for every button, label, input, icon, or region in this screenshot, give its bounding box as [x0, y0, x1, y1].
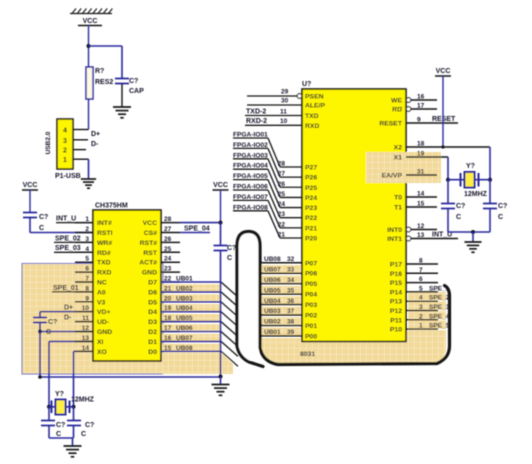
node junction gnd rail left — [38, 375, 42, 379]
svg-text:UD-: UD- — [97, 319, 109, 326]
svg-text:UB08: UB08 — [264, 256, 281, 263]
svg-text:21: 21 — [278, 231, 286, 238]
wire/label SPE_01 pin8 — [52, 291, 93, 293]
node 8031 pin 6 P15 — [406, 282, 438, 284]
svg-text:UB05: UB05 — [264, 287, 281, 294]
wire caps to ground right — [447, 209, 449, 233]
svg-text:XI: XI — [97, 339, 104, 346]
svg-text:UB04: UB04 — [176, 305, 193, 312]
svg-text:4: 4 — [63, 128, 67, 135]
svg-text:P15: P15 — [390, 280, 402, 287]
svg-text:D+: D+ — [64, 305, 73, 312]
wire UB06 bus CH375 side — [161, 331, 221, 333]
svg-text:P23: P23 — [305, 205, 317, 212]
node CH375 pin 26 RST# — [161, 241, 180, 243]
node CH375 pin 28 VCC — [161, 222, 180, 224]
svg-text:15: 15 — [417, 201, 425, 208]
svg-text:X2: X2 — [394, 145, 403, 152]
node highlight-band-8031 — [261, 331, 446, 364]
node CH375 pin 9 V3 — [75, 301, 93, 303]
svg-text:P06: P06 — [305, 271, 317, 278]
svg-text:UB06: UB06 — [176, 325, 193, 332]
node 8031 pin 29 PSEN — [247, 95, 297, 97]
node CH375 pin 3 WR# — [75, 241, 93, 243]
svg-text:ACT#: ACT# — [139, 260, 157, 267]
node CH375 pin 22 D7 — [161, 281, 180, 283]
crystal Y? 12MHZ bottom — [56, 400, 66, 415]
svg-text:C?: C? — [85, 422, 94, 429]
wire/label UB04 pin 36 to P03 — [262, 304, 302, 306]
svg-text:27: 27 — [164, 226, 172, 233]
svg-text:16: 16 — [417, 94, 425, 101]
wire cap to ground — [121, 84, 123, 108]
wire cap to pin2 RSTI — [29, 218, 31, 233]
svg-text:2: 2 — [63, 148, 67, 155]
wire UB02 bus CH375 side — [161, 291, 221, 293]
svg-text:EA/VP: EA/VP — [382, 173, 403, 180]
svg-text:SPE_2: SPE_2 — [429, 295, 450, 302]
wire crystal rail — [49, 406, 74, 408]
svg-text:9: 9 — [417, 117, 421, 124]
svg-text:D5: D5 — [148, 299, 157, 306]
svg-text:VCC: VCC — [83, 18, 98, 25]
svg-text:P01: P01 — [305, 323, 317, 330]
svg-text:3: 3 — [85, 236, 89, 243]
wire UB05 bus CH375 side — [161, 321, 221, 323]
node CH375 pin 8 A0 — [75, 291, 93, 293]
svg-text:8: 8 — [85, 285, 89, 292]
svg-text:P11: P11 — [390, 317, 402, 324]
wire UB01 bus CH375 side — [161, 281, 221, 283]
node 8031 pin 13 INT1 + INT_U label — [411, 238, 458, 240]
capacitor C? right-right — [489, 180, 491, 204]
svg-text:C?: C? — [498, 203, 507, 210]
node junction X2/VCC — [441, 145, 444, 148]
svg-text:26: 26 — [164, 236, 172, 243]
svg-text:R?: R? — [95, 68, 104, 75]
svg-text:39: 39 — [287, 329, 295, 336]
svg-text:6: 6 — [85, 266, 89, 273]
node junction crystal-right right — [488, 178, 492, 182]
resistor R? RES2 — [86, 67, 93, 99]
svg-text:VCC: VCC — [23, 182, 38, 189]
svg-text:UB02: UB02 — [176, 285, 193, 292]
capacitor C? right-left — [447, 180, 449, 204]
wire data-bus diagonals CH375 side — [221, 282, 238, 366]
svg-text:RD: RD — [392, 107, 402, 114]
wire/label INT_U to pin1 — [56, 222, 93, 224]
node CH375 pin 11 UD- — [75, 321, 93, 323]
svg-text:A0: A0 — [97, 289, 106, 296]
svg-text:26: 26 — [278, 181, 286, 188]
svg-text:3: 3 — [63, 138, 67, 145]
svg-text:12: 12 — [417, 223, 425, 230]
wire data-bus diagonals 8031 side — [246, 249, 262, 336]
svg-text:C: C — [81, 431, 86, 438]
wire/label SPE_02 pin3 — [54, 241, 93, 243]
wire VCC to R junction — [88, 26, 90, 68]
svg-text:C: C — [56, 431, 61, 438]
svg-text:D-: D- — [91, 141, 99, 148]
svg-text:D6: D6 — [148, 289, 157, 296]
svg-text:8: 8 — [419, 258, 423, 265]
node CH375 pin 4 RD# — [75, 251, 93, 253]
node CH375 pin 7 NC — [75, 281, 93, 283]
wire XO pin14 — [74, 350, 94, 352]
svg-text:P24: P24 — [305, 195, 317, 202]
svg-text:SPE_5: SPE_5 — [429, 323, 450, 330]
node junction crystal right — [72, 405, 76, 409]
svg-text:SPE_3: SPE_3 — [429, 304, 450, 311]
svg-text:RXD: RXD — [305, 123, 319, 130]
svg-text:7: 7 — [85, 276, 89, 283]
node CH375 pin 23 GND — [161, 271, 180, 273]
svg-text:T1: T1 — [394, 205, 402, 212]
capacitor C? bottom-left — [48, 407, 50, 421]
node CH375 pin 24 ACT# — [161, 261, 180, 263]
svg-text:3: 3 — [419, 304, 423, 311]
wire/label UB03 pin 37 to P02 — [262, 314, 302, 316]
svg-text:USB2.0: USB2.0 — [45, 131, 52, 154]
svg-text:VD+: VD+ — [97, 309, 110, 316]
wire R to USB pin4 — [88, 99, 90, 130]
node junction ground right — [471, 230, 475, 234]
svg-text:P03: P03 — [305, 302, 317, 309]
svg-text:D-: D- — [64, 315, 72, 322]
crystal Y? 12MHZ right — [465, 172, 475, 188]
node 8031 pin 31 EA/VP — [406, 174, 437, 176]
svg-text:P22: P22 — [305, 215, 317, 222]
node CH375 pin 25 RST — [161, 251, 180, 253]
svg-text:VCC: VCC — [213, 182, 228, 189]
svg-text:UB08: UB08 — [176, 345, 193, 352]
node selection-lasso-slot — [237, 232, 260, 362]
svg-text:C: C — [227, 255, 232, 262]
svg-text:1: 1 — [85, 216, 89, 223]
svg-text:TXD: TXD — [97, 260, 111, 267]
svg-text:D1: D1 — [148, 339, 157, 346]
svg-text:8031: 8031 — [300, 351, 315, 358]
node highlight-spe-stripes — [408, 292, 446, 342]
svg-text:25: 25 — [278, 191, 286, 198]
node highlight-x1-ea-box — [366, 152, 441, 183]
ground mid — [212, 384, 230, 386]
svg-text:D2: D2 — [148, 329, 157, 336]
svg-text:P00: P00 — [305, 333, 317, 340]
wire USB pin 1 to ground — [73, 158, 89, 160]
node 8031 pin 2 P11 — [406, 319, 438, 321]
svg-text:D3: D3 — [148, 319, 157, 326]
node CH375 pin 6 RXD — [75, 271, 93, 273]
svg-text:6: 6 — [419, 276, 423, 283]
svg-text:P14: P14 — [390, 289, 402, 296]
svg-text:7: 7 — [419, 267, 423, 274]
node 8031 pin 1 P10 — [406, 328, 438, 330]
svg-text:P26: P26 — [305, 175, 317, 182]
ground right — [464, 241, 481, 243]
node CH375 pin 5 TXD — [75, 261, 93, 263]
wire cap to GND pin12 — [39, 323, 41, 332]
wire USB pin 4 stub — [73, 129, 89, 131]
svg-text:Y?: Y? — [466, 163, 475, 170]
node 8031 pin 8 P17 — [406, 263, 438, 265]
node 8031 pin 19 X1 wire to crystal — [406, 156, 448, 158]
svg-text:UB06: UB06 — [264, 277, 281, 284]
capacitor C? bottom-right — [73, 407, 75, 421]
wire UB04 bus CH375 side — [161, 311, 221, 313]
node junction crystal left — [47, 405, 51, 409]
svg-text:UB07: UB07 — [176, 335, 193, 342]
svg-text:P02: P02 — [305, 313, 317, 320]
wire junction to cap CAP — [89, 45, 123, 47]
capacitor C? CAP — [115, 78, 129, 80]
svg-text:C?: C? — [456, 203, 465, 210]
svg-text:RXD: RXD — [97, 270, 111, 277]
svg-text:UB01: UB01 — [176, 276, 193, 283]
svg-text:P20: P20 — [305, 235, 317, 242]
node CH375 pin 20 D5 — [161, 301, 180, 303]
svg-text:35: 35 — [287, 287, 295, 294]
svg-text:14: 14 — [82, 345, 90, 352]
svg-text:INT1: INT1 — [387, 236, 402, 243]
node 8031 pin 16 WE — [411, 99, 437, 101]
svg-text:C?: C? — [39, 214, 48, 221]
svg-text:UB05: UB05 — [176, 315, 193, 322]
node junction VCC/R/C — [87, 44, 91, 48]
connector P1-USB body — [57, 119, 73, 169]
node CH375 pin 27 CS# — [161, 232, 180, 234]
svg-text:UB04: UB04 — [264, 298, 281, 305]
svg-text:36: 36 — [287, 298, 295, 305]
svg-text:17: 17 — [417, 103, 425, 110]
svg-text:22: 22 — [278, 221, 286, 228]
svg-text:INT_U: INT_U — [56, 216, 76, 223]
svg-text:D4: D4 — [148, 309, 157, 316]
svg-text:UB02: UB02 — [264, 319, 281, 326]
svg-text:C?: C? — [56, 422, 65, 429]
svg-text:CH375HM: CH375HM — [95, 203, 128, 210]
svg-text:RSTI: RSTI — [97, 230, 113, 237]
node 8031 pin 5 P14 — [406, 291, 438, 293]
svg-text:2: 2 — [85, 226, 89, 233]
node CH375 pin 2 RSTI — [75, 232, 93, 234]
node 8031 pin 30 ALE/P — [247, 104, 302, 106]
svg-text:4: 4 — [419, 295, 423, 302]
node 8031 pin 7 P16 — [406, 272, 438, 274]
svg-text:GND: GND — [142, 270, 157, 277]
wire/label UB05 pin 35 to P04 — [262, 293, 302, 295]
wire stem to ground — [220, 377, 222, 385]
svg-text:ALE/P: ALE/P — [305, 103, 325, 110]
ground below CAP — [113, 106, 131, 108]
node selection-lasso-outline — [237, 232, 450, 367]
node highlight-left-block — [22, 264, 163, 375]
node junction gnd rail — [219, 375, 223, 379]
wire stem ground right — [472, 232, 474, 242]
svg-text:P04: P04 — [305, 292, 317, 299]
wire caps to ground — [48, 426, 50, 439]
node CH375 pin 21 D6 — [161, 291, 180, 293]
svg-text:30: 30 — [281, 98, 289, 105]
svg-text:34: 34 — [287, 277, 295, 284]
wire UB03 bus CH375 side — [161, 301, 221, 303]
svg-text:24: 24 — [278, 201, 286, 208]
svg-text:C?: C? — [48, 319, 57, 326]
svg-text:V3: V3 — [97, 299, 106, 306]
wire/label SPE_04 pin27 — [180, 232, 210, 234]
svg-text:13: 13 — [82, 335, 90, 342]
svg-text:Y?: Y? — [55, 391, 64, 398]
svg-text:D+: D+ — [91, 131, 100, 138]
wire cap to ground rail — [220, 251, 222, 378]
svg-text:SPE_01: SPE_01 — [53, 285, 79, 292]
wire USB pin 3 stub — [73, 139, 88, 141]
svg-text:28: 28 — [164, 216, 172, 223]
svg-text:4: 4 — [85, 246, 89, 253]
op-amp U? CH375HM body — [93, 210, 161, 361]
node CH375 pin 18 D3 — [161, 321, 180, 323]
svg-text:INT0: INT0 — [387, 227, 402, 234]
svg-text:INT#: INT# — [97, 220, 112, 227]
capacitor C? mid — [214, 245, 228, 247]
node junction VCC/pin28 — [219, 221, 223, 225]
svg-text:RST#: RST# — [140, 240, 158, 247]
svg-text:19: 19 — [417, 151, 425, 158]
wire/label UB07 pin 33 to P06 — [262, 272, 302, 274]
wire UB07 bus CH375 side — [161, 340, 221, 342]
node CH375 pin 1 INT# — [75, 222, 93, 224]
node CH375 pin 17 D2 — [161, 331, 180, 333]
node 8031 pin 17 RD — [411, 108, 437, 110]
wire/label TXD-2 pin 11 — [245, 115, 302, 117]
svg-text:25: 25 — [164, 246, 172, 253]
svg-text:13: 13 — [417, 232, 425, 239]
svg-text:P13: P13 — [390, 299, 402, 306]
svg-text:P05: P05 — [305, 281, 317, 288]
svg-text:C: C — [498, 214, 503, 221]
svg-text:10: 10 — [280, 118, 288, 125]
svg-text:12MHZ: 12MHZ — [464, 191, 488, 198]
svg-text:5: 5 — [85, 256, 89, 263]
svg-text:VCC: VCC — [143, 220, 157, 227]
svg-text:CS#: CS# — [144, 230, 157, 237]
svg-text:37: 37 — [287, 308, 295, 315]
capacitor C? left — [23, 212, 37, 214]
ground bottom-left — [64, 445, 82, 447]
svg-text:18: 18 — [417, 141, 425, 148]
svg-text:RESET: RESET — [432, 116, 456, 123]
svg-text:11: 11 — [280, 108, 287, 115]
node 8031 pin 4 P13 — [406, 300, 438, 302]
node CH375 pin 14 XO — [75, 350, 93, 352]
wire/label UB01 pin 39 to P00 — [262, 335, 302, 337]
svg-text:SPE_4: SPE_4 — [429, 313, 450, 320]
wire down to gnd rail — [39, 332, 41, 378]
svg-text:P16: P16 — [390, 271, 402, 278]
wire gnd rail horizontal — [40, 376, 221, 378]
svg-text:UB07: UB07 — [264, 266, 281, 273]
node junction pin12 — [38, 330, 42, 334]
svg-text:NC: NC — [97, 280, 107, 287]
svg-text:29: 29 — [281, 89, 289, 96]
svg-text:U?: U? — [302, 81, 311, 88]
svg-text:SPE_1: SPE_1 — [429, 285, 450, 292]
node 8031 pin 15 T1 — [406, 206, 437, 208]
wire/label RXD-2 pin 10 — [245, 124, 302, 126]
svg-text:TXD-2: TXD-2 — [246, 108, 266, 115]
svg-text:1: 1 — [419, 323, 423, 330]
svg-text:T0: T0 — [394, 195, 402, 202]
node CH375 pin 19 D4 — [161, 311, 180, 313]
ground below USB — [81, 178, 96, 180]
svg-text:SPE_04: SPE_04 — [184, 225, 210, 232]
wire D+ pin10 — [40, 311, 93, 313]
svg-text:RESET: RESET — [379, 121, 403, 128]
node 8031 pin 3 P12 — [406, 310, 438, 312]
svg-text:GND: GND — [97, 329, 112, 336]
svg-text:27: 27 — [278, 171, 286, 178]
svg-text:TXD: TXD — [305, 113, 319, 120]
svg-text:28: 28 — [278, 161, 286, 168]
wire/label UB06 pin 34 to P05 — [262, 283, 302, 285]
power VCC top-left with hatched rail — [70, 9, 112, 26]
svg-text:PSEN: PSEN — [305, 94, 324, 101]
svg-text:RST: RST — [143, 250, 157, 257]
node CH375 pin 12 GND — [75, 331, 93, 333]
svg-text:P07: P07 — [305, 260, 317, 267]
node junction crystal-right left — [446, 178, 450, 182]
svg-text:38: 38 — [287, 319, 295, 326]
op-amp U? 8031 body — [302, 89, 406, 342]
svg-text:D0: D0 — [148, 349, 157, 356]
svg-text:24: 24 — [164, 256, 172, 263]
node 8031 pin 9 RESET + label — [406, 122, 458, 124]
svg-text:14: 14 — [417, 191, 425, 198]
wire pin12 GND — [40, 331, 93, 333]
svg-text:P1-USB: P1-USB — [55, 173, 81, 180]
wire USB pin 2 stub — [73, 149, 86, 151]
svg-text:1: 1 — [63, 157, 67, 164]
svg-text:23: 23 — [164, 266, 172, 273]
svg-text:WE: WE — [391, 98, 402, 105]
svg-text:9: 9 — [85, 295, 89, 302]
node CH375 pin 15 D0 — [161, 350, 180, 352]
svg-text:UB03: UB03 — [176, 295, 193, 302]
svg-text:12MHZ: 12MHZ — [71, 397, 95, 404]
svg-text:X1: X1 — [394, 155, 403, 162]
wire XI pin13 — [49, 340, 93, 342]
node 8031 pin 18 X2 wire to crystal — [406, 146, 490, 148]
svg-text:SPE_02: SPE_02 — [55, 235, 81, 242]
svg-text:WR#: WR# — [97, 240, 112, 247]
svg-text:C: C — [46, 329, 51, 336]
svg-text:5: 5 — [419, 285, 423, 292]
node highlight-ub-stripes — [258, 265, 302, 336]
svg-text:10: 10 — [82, 305, 90, 312]
svg-text:12: 12 — [82, 325, 90, 332]
svg-text:23: 23 — [278, 211, 286, 218]
svg-text:2: 2 — [419, 313, 423, 320]
svg-text:31: 31 — [417, 169, 425, 176]
svg-text:33: 33 — [287, 266, 295, 273]
svg-text:C?: C? — [129, 78, 138, 85]
svg-text:C: C — [39, 225, 44, 232]
svg-text:SPE_03: SPE_03 — [55, 245, 81, 252]
svg-text:P25: P25 — [305, 185, 317, 192]
svg-text:C: C — [456, 214, 461, 221]
svg-text:P12: P12 — [390, 308, 402, 315]
node 8031 pin 14 T0 — [406, 196, 437, 198]
